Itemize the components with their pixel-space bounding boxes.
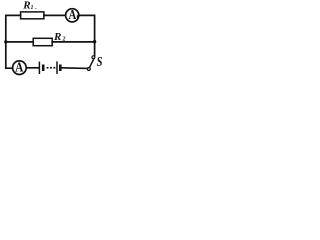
wire left rail lower [6, 42, 12, 68]
node junction right [93, 40, 96, 43]
ammeter A1 letter [69, 7, 77, 22]
svg-text:A: A [69, 7, 77, 22]
wire battery to switch [61, 67, 87, 70]
ammeter A2 letter [15, 60, 23, 75]
switch top contact [92, 56, 95, 59]
label S [97, 54, 103, 70]
resistor R2 body [33, 38, 52, 45]
wire top-left segment [6, 15, 21, 42]
wire middle right [52, 41, 94, 43]
wire top between R1 and A1 [44, 14, 65, 16]
battery cell 1 long plate [38, 62, 40, 74]
wire middle left [6, 41, 33, 43]
ammeter A2 circle [13, 61, 27, 75]
svg-text:A: A [15, 60, 23, 75]
battery cell 1 short thick plate [42, 65, 45, 72]
svg-text:S: S [97, 54, 103, 70]
resistor R1 body [21, 12, 44, 19]
battery dots [47, 67, 56, 69]
wire right rail to switch [94, 42, 96, 56]
switch lever [89, 58, 94, 68]
battery cell 2 long plate [56, 61, 58, 74]
wire bottom ammeter to battery [27, 67, 39, 69]
node junction left [4, 40, 7, 43]
ammeter A1 circle [66, 9, 79, 22]
wire top-right segment [79, 15, 94, 41]
ammeter A1 subscript mark [77, 15, 78, 18]
switch bottom contact [87, 68, 90, 71]
battery cell 2 short thick plate [59, 65, 62, 72]
